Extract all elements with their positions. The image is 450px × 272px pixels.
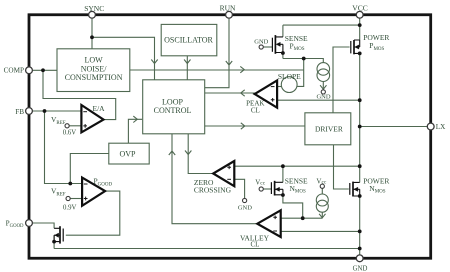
wire PEAK CL minus stub to slope circle bbox=[277, 86, 281, 88]
svg-text:POWER: POWER bbox=[363, 176, 389, 185]
wire VALLEY CL minus input line bbox=[281, 230, 360, 232]
pin SYNC bbox=[89, 11, 96, 18]
wire internal ground rail bbox=[54, 249, 360, 256]
block LOOP CONTROL bbox=[143, 80, 205, 134]
svg-text:VCC: VCC bbox=[352, 4, 367, 13]
wire FB to E/A inverting input bbox=[32, 110, 81, 112]
svg-text:Vcc: Vcc bbox=[316, 177, 327, 185]
svg-text:SYNC: SYNC bbox=[84, 4, 104, 13]
wire zero crossing minus stub to GND bbox=[235, 179, 245, 198]
wire VALLEY CL output to LOOP CONTROL bbox=[172, 134, 258, 224]
terminal GND at sense PMOS gate bbox=[259, 45, 263, 49]
wire POWER PMOS drain down to POWER NMOS drain bbox=[359, 53, 361, 182]
pin GND bbox=[356, 255, 363, 262]
E/A plus bbox=[83, 124, 87, 128]
wire VREF 0.6V to E/A non-inverting input bbox=[69, 125, 81, 127]
svg-text:PGOOD: PGOOD bbox=[6, 219, 24, 229]
PGOOD plus bbox=[84, 197, 88, 201]
wire SENSE PMOS gate to GND terminal bbox=[263, 46, 272, 48]
svg-text:LX: LX bbox=[436, 123, 446, 131]
comparator ZERO CROSSING bbox=[213, 161, 234, 186]
VALLEY minus bbox=[273, 230, 277, 232]
block LOW NOISE/CONSUMPTION bbox=[57, 49, 130, 92]
svg-text:CONSUMPTION: CONSUMPTION bbox=[65, 73, 123, 82]
svg-text:LOOP: LOOP bbox=[162, 98, 183, 107]
PEAK plus bbox=[271, 98, 275, 102]
terminal VREF 0.6V bbox=[65, 124, 69, 128]
VALLEY plus bbox=[273, 215, 277, 219]
wire zero crossing plus line to LX node bbox=[235, 165, 360, 167]
svg-text:SENSE: SENSE bbox=[285, 34, 308, 43]
wire VCC rail to both PMOS sources bbox=[283, 18, 360, 41]
pin PGOOD bbox=[26, 220, 33, 227]
svg-text:0.9V: 0.9V bbox=[63, 205, 76, 212]
transistor Q3 SENSE NMOS bbox=[271, 181, 283, 196]
E/A minus bbox=[83, 111, 87, 113]
PEAK minus bbox=[271, 86, 275, 88]
wire SENSE NMOS drain up to zero crossing line bbox=[282, 166, 284, 182]
block OSCILLATOR bbox=[161, 24, 217, 55]
wire LOW block output to slope node bbox=[130, 69, 304, 71]
block DRIVER bbox=[305, 113, 351, 145]
current source I2 bottom circles bbox=[316, 194, 328, 206]
PGOOD minus bbox=[84, 183, 88, 185]
wire VALLEY CL plus input line bbox=[281, 217, 322, 219]
wire top current source to GND terminal bbox=[322, 81, 324, 89]
wire OVP output to LOOP CONTROL bbox=[128, 119, 142, 143]
wire PGOOD comparator output to FET gate bbox=[66, 191, 120, 235]
svg-text:CONTROL: CONTROL bbox=[154, 106, 192, 115]
terminal VREF 0.9V bbox=[66, 196, 70, 200]
wire OSCILLATOR output to LOOP CONTROL bbox=[186, 56, 188, 80]
comparator PEAK CL bbox=[255, 80, 278, 107]
pin COMP bbox=[26, 67, 33, 74]
svg-text:OSCILLATOR: OSCILLATOR bbox=[164, 35, 213, 44]
terminal Vcc above current source I2 bbox=[320, 184, 324, 188]
wire RUN vertical to LOOP CONTROL bbox=[205, 18, 229, 88]
current source I1 top circles bbox=[317, 63, 330, 76]
svg-text:VREF: VREF bbox=[51, 186, 66, 197]
svg-text:PMOS: PMOS bbox=[369, 41, 384, 52]
wire VREF 0.9V to PGOOD comparator input bbox=[70, 198, 81, 200]
svg-text:CL: CL bbox=[251, 241, 260, 249]
wire zero crossing output to LOOP CONTROL bbox=[188, 134, 213, 174]
svg-text:FB: FB bbox=[15, 108, 24, 116]
svg-text:POWER: POWER bbox=[363, 33, 389, 42]
svg-text:GND: GND bbox=[316, 94, 330, 101]
wire FB branch to OVP input bbox=[70, 154, 109, 184]
transistor Q1 SENSE PMOS bbox=[272, 35, 283, 54]
pin RUN bbox=[226, 11, 233, 18]
svg-text:SENSE: SENSE bbox=[285, 176, 308, 185]
ZERO minus bbox=[227, 178, 231, 180]
arrowheads (direction chevrons) bbox=[133, 60, 326, 218]
wire POWER NMOS source down to ground rail bbox=[359, 196, 361, 249]
wire LX line bbox=[360, 126, 428, 128]
wire slope node vertical bbox=[297, 59, 304, 87]
svg-text:SLOPE: SLOPE bbox=[278, 72, 301, 81]
comparator PGOOD bbox=[82, 178, 105, 206]
wire LOOP CONTROL to DRIVER bbox=[205, 125, 305, 127]
svg-text:VREF: VREF bbox=[51, 115, 66, 126]
wire FB branch down to PGOOD comparator bbox=[45, 111, 82, 184]
transistor Q5 PGOOD open-drain NMOS bbox=[54, 226, 63, 243]
pin FB bbox=[26, 108, 33, 115]
svg-text:Vcc: Vcc bbox=[255, 179, 266, 187]
wire PGOOD FET source to ground rail bbox=[53, 235, 55, 248]
svg-text:GND: GND bbox=[238, 204, 252, 211]
wire SENSE NMOS source to valley plus node bbox=[283, 195, 303, 218]
svg-text:E/A: E/A bbox=[93, 104, 106, 113]
pin VCC bbox=[356, 11, 363, 18]
svg-text:LOW: LOW bbox=[84, 56, 103, 65]
wire COMP to LOW block bbox=[32, 69, 57, 71]
svg-text:GND: GND bbox=[254, 38, 268, 45]
svg-text:COMP: COMP bbox=[4, 67, 24, 75]
terminal Vcc at sense NMOS gate bbox=[259, 187, 263, 191]
transistor Q2 POWER PMOS bbox=[351, 40, 360, 54]
wire PGOOD pin to open-drain FET bbox=[32, 223, 54, 228]
small terminals bbox=[65, 45, 325, 203]
svg-text:DRIVER: DRIVER bbox=[315, 125, 343, 134]
wire SYNC vertical into LOW block bbox=[91, 18, 93, 49]
transistor Q4 POWER NMOS bbox=[350, 182, 360, 197]
wire POWER PMOS gate from DRIVER top bbox=[333, 47, 350, 113]
comparator input polarity marks bbox=[83, 87, 277, 231]
svg-text:CL: CL bbox=[251, 106, 260, 114]
terminal GND below current source I1 bbox=[321, 90, 325, 94]
block OVP bbox=[109, 143, 149, 164]
svg-text:GND: GND bbox=[353, 265, 368, 272]
svg-text:RUN: RUN bbox=[220, 4, 236, 13]
svg-text:CROSSING: CROSSING bbox=[194, 186, 232, 195]
wire POWER NMOS gate from DRIVER bottom bbox=[334, 145, 349, 189]
pin LX bbox=[427, 123, 434, 130]
svg-text:OVP: OVP bbox=[119, 150, 136, 159]
wire PEAK CL output to LOOP CONTROL bbox=[205, 92, 255, 94]
ZERO plus bbox=[227, 165, 231, 169]
wire E/A output to COMP node bbox=[43, 70, 116, 119]
svg-text:0.6V: 0.6V bbox=[63, 129, 76, 136]
comparator VALLEY CL bbox=[257, 210, 280, 237]
terminal GND below zero crossing bbox=[243, 198, 247, 202]
op-amp E/A bbox=[81, 105, 103, 132]
wire slope node to sense PMOS drain and current source bbox=[283, 53, 323, 63]
wire PEAK CL plus current sense line bbox=[277, 99, 360, 101]
wire SENSE NMOS gate to Vcc terminal bbox=[263, 188, 271, 190]
wire bottom current source from Vcc terminal bbox=[321, 188, 323, 218]
slope circle bbox=[281, 77, 297, 93]
wire SYNC branch to LOOP CONTROL bbox=[92, 37, 155, 79]
